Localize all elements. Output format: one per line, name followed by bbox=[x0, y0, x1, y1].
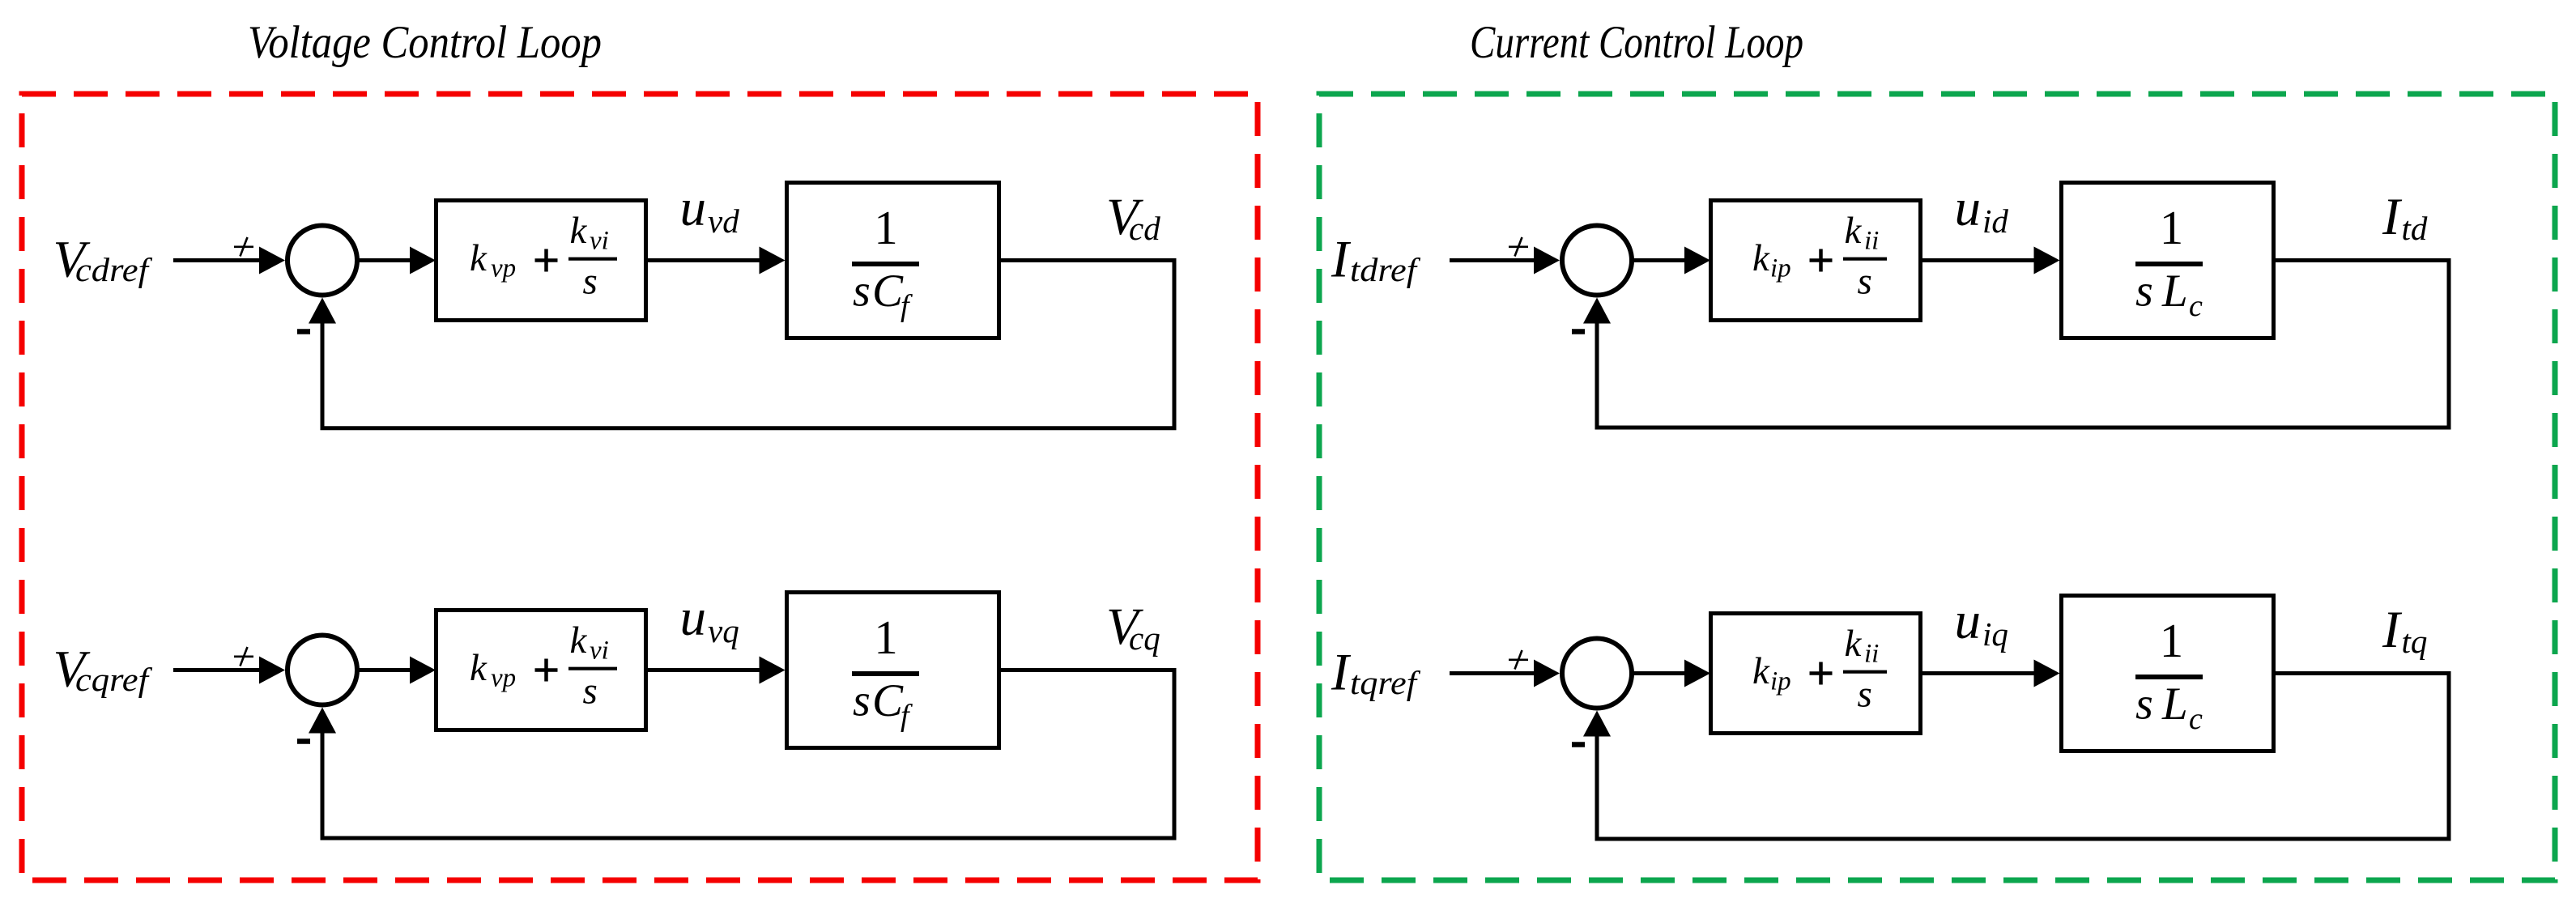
svg-text:L: L bbox=[2161, 679, 2188, 730]
svg-text:tqref: tqref bbox=[1350, 664, 1421, 701]
svg-text:1: 1 bbox=[2160, 201, 2184, 254]
svg-text:ip: ip bbox=[1770, 254, 1791, 283]
svg-text:ii: ii bbox=[1864, 227, 1879, 256]
svg-text:vq: vq bbox=[708, 612, 739, 649]
svg-text:1: 1 bbox=[2160, 614, 2184, 667]
svg-text:cq: cq bbox=[1129, 619, 1160, 657]
svg-text:C: C bbox=[872, 675, 904, 726]
svg-text:cdref: cdref bbox=[75, 251, 153, 288]
svg-text:u: u bbox=[1955, 592, 1982, 650]
svg-text:ii: ii bbox=[1864, 640, 1879, 669]
svg-text:u: u bbox=[680, 589, 707, 647]
svg-text:c: c bbox=[2189, 702, 2203, 736]
svg-text:vp: vp bbox=[491, 664, 516, 693]
svg-text:I: I bbox=[2382, 188, 2403, 246]
svg-text:cqref: cqref bbox=[75, 661, 153, 698]
svg-text:u: u bbox=[680, 179, 707, 237]
svg-text:tq: tq bbox=[2402, 623, 2428, 660]
svg-text:I: I bbox=[1331, 644, 1352, 702]
svg-text:cd: cd bbox=[1129, 210, 1160, 247]
svg-text:k: k bbox=[1752, 650, 1770, 692]
svg-text:s: s bbox=[853, 266, 871, 317]
svg-text:vi: vi bbox=[590, 636, 609, 666]
svg-text:1: 1 bbox=[874, 611, 898, 664]
svg-text:s: s bbox=[853, 676, 871, 726]
svg-text:id: id bbox=[1982, 202, 2008, 240]
svg-text:vi: vi bbox=[590, 227, 609, 256]
svg-text:k: k bbox=[1845, 210, 1863, 252]
svg-text:k: k bbox=[570, 210, 588, 252]
svg-text:1: 1 bbox=[874, 201, 898, 254]
svg-text:Current Control Loop: Current Control Loop bbox=[1470, 17, 1803, 68]
svg-text:k: k bbox=[1845, 623, 1863, 665]
svg-text:L: L bbox=[2161, 266, 2188, 317]
svg-text:k: k bbox=[570, 619, 588, 662]
svg-text:td: td bbox=[2402, 210, 2428, 247]
svg-text:Voltage Control Loop: Voltage Control Loop bbox=[248, 17, 602, 68]
svg-text:k: k bbox=[1752, 237, 1770, 279]
svg-text:C: C bbox=[872, 266, 904, 317]
svg-text:I: I bbox=[1331, 231, 1352, 289]
svg-text:s: s bbox=[2135, 679, 2153, 730]
svg-text:I: I bbox=[2382, 601, 2403, 659]
svg-text:ip: ip bbox=[1770, 667, 1791, 696]
svg-text:vp: vp bbox=[491, 254, 516, 283]
svg-text:iq: iq bbox=[1982, 615, 2008, 653]
svg-text:s: s bbox=[583, 261, 598, 303]
svg-text:s: s bbox=[1858, 674, 1872, 716]
svg-text:k: k bbox=[470, 237, 488, 279]
svg-text:k: k bbox=[470, 647, 488, 689]
svg-text:s: s bbox=[2135, 266, 2153, 317]
svg-text:s: s bbox=[1858, 261, 1872, 303]
svg-text:u: u bbox=[1955, 179, 1982, 237]
svg-text:c: c bbox=[2189, 289, 2203, 323]
svg-text:vd: vd bbox=[708, 202, 739, 240]
svg-text:s: s bbox=[583, 670, 598, 713]
svg-text:tdref: tdref bbox=[1350, 251, 1421, 288]
